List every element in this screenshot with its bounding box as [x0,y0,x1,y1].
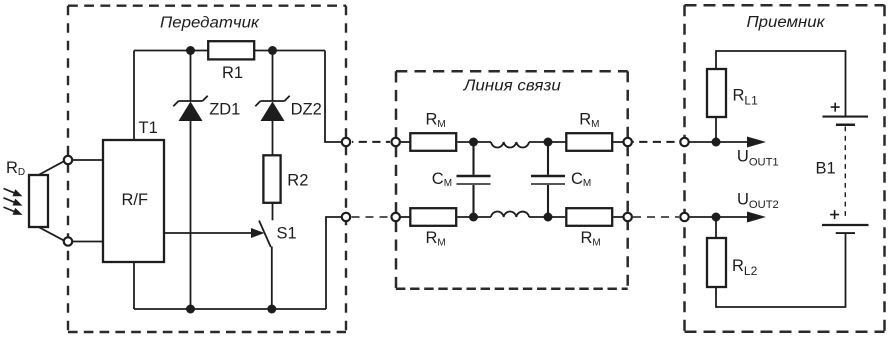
svg-text:S1: S1 [277,225,297,243]
svg-text:B1: B1 [816,160,836,178]
svg-text:DZ2: DZ2 [291,101,322,119]
svg-text:R2: R2 [287,172,308,190]
svg-text:T1: T1 [139,119,158,137]
svg-text:R/F: R/F [122,191,149,209]
svg-text:Линия связи: Линия связи [463,78,562,95]
svg-text:Передатчик: Передатчик [160,15,260,32]
svg-text:ZD1: ZD1 [209,101,240,119]
svg-text:Приемник: Приемник [747,14,826,31]
svg-text:R1: R1 [222,64,243,82]
